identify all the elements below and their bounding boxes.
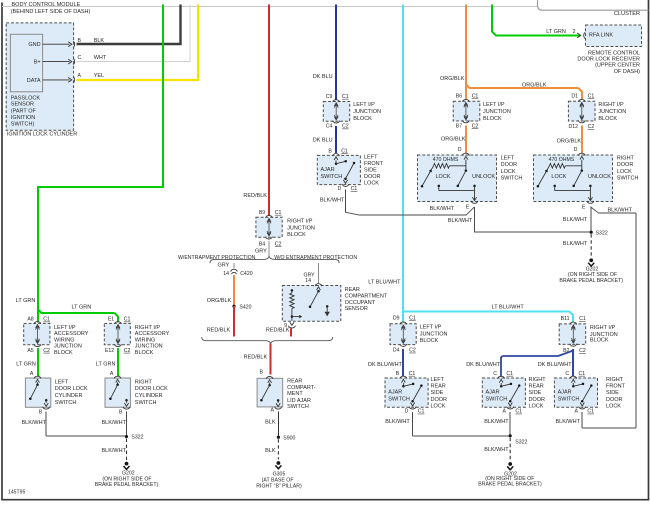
pin GND [28,42,69,48]
svg-text:OF DASH): OF DASH) [614,69,640,75]
svg-text:AJAR: AJAR [558,390,572,396]
svg-text:BLK/WHT: BLK/WHT [556,419,581,425]
svg-text:SWITCH: SWITCH [558,396,580,402]
svg-text:DOOR LOCK: DOOR LOCK [55,386,88,392]
wire DK BLU between blocks [313,126,336,153]
svg-text:SIDE: SIDE [529,390,542,396]
svg-text:C2: C2 [409,348,416,354]
svg-text:LEFT I/P: LEFT I/P [483,102,505,108]
svg-text:C9: C9 [326,94,333,100]
wire ORG/BLK trunk [440,5,466,100]
svg-text:WIRING: WIRING [135,337,155,343]
wire ORG/BLK B7 to left lock label [441,137,466,143]
left rear side door lock ajar switch [385,371,447,415]
svg-text:BLK: BLK [265,420,276,426]
svg-text:E: E [582,204,586,210]
wire BLK/WHT left rear ajar D to S322 [385,412,509,436]
svg-text:DK BLU/WHT: DK BLU/WHT [466,362,501,368]
svg-text:LT GRN: LT GRN [546,29,566,35]
left door lock switch [418,126,523,211]
svg-text:SWITCH: SWITCH [388,396,410,402]
wire LT GRN to RFA LINK [492,5,580,36]
svg-text:BLOCK: BLOCK [287,232,306,238]
ignition lock cylinder box [6,23,73,130]
svg-text:RIGHT: RIGHT [529,377,547,383]
svg-text:BRAKE PEDAL BRACKET): BRAKE PEDAL BRACKET) [478,482,542,488]
RFA LINK label [589,32,613,38]
svg-text:BLOCK: BLOCK [483,116,502,122]
svg-text:145T95: 145T95 [8,490,25,496]
svg-text:REAR: REAR [345,287,360,293]
svg-text:RIGHT I/P: RIGHT I/P [598,102,624,108]
svg-text:RED/BLK: RED/BLK [207,327,231,333]
svg-text:B4: B4 [259,241,265,247]
wire GRY from B4 [255,241,269,257]
svg-text:JUNCTION: JUNCTION [483,109,511,115]
svg-text:E12: E12 [105,348,114,354]
svg-text:JUNCTION: JUNCTION [54,344,82,350]
svg-text:RIGHT I/P: RIGHT I/P [135,325,161,331]
svg-text:BRAKE PEDAL BRACKET): BRAKE PEDAL BRACKET) [559,278,623,284]
svg-text:BLK/WHT: BLK/WHT [22,420,47,426]
svg-text:C1: C1 [275,210,282,216]
svg-text:DOOR: DOOR [431,397,448,403]
svg-text:SWITCH: SWITCH [287,404,309,410]
svg-text:S322: S322 [596,230,608,236]
svg-text:C: C [565,371,569,377]
svg-text:RED/BLK: RED/BLK [266,327,290,333]
svg-text:D4: D4 [393,348,400,354]
svg-text:JUNCTION: JUNCTION [353,109,381,115]
wire LT BLU/WHT trunk [368,5,403,323]
passlock sensor box [10,34,42,92]
svg-text:C2: C2 [579,348,586,354]
svg-text:SWITCH: SWITCH [501,175,523,181]
wire ORG/BLK D12 to right lock label [557,138,582,144]
svg-text:LEFT I/P: LEFT I/P [353,102,375,108]
left front side door lock ajar switch [317,148,383,192]
wire BLK/WHT right front ajar A label [556,419,581,425]
svg-text:C2: C2 [472,123,479,129]
svg-text:C1: C1 [506,371,513,377]
svg-text:D: D [574,147,578,153]
svg-text:B+: B+ [34,60,41,66]
svg-text:LOCK: LOCK [501,169,516,175]
svg-text:C1: C1 [515,409,522,415]
right front side door lock ajar switch [554,371,625,415]
junction block C9/C1 left i/p [323,94,381,130]
svg-text:REAR: REAR [431,384,446,390]
svg-text:BLK/WHT: BLK/WHT [320,198,345,204]
svg-text:IGNITION LOCK CYLINDER: IGNITION LOCK CYLINDER [7,132,77,138]
wire YEL [77,5,199,81]
svg-text:C420: C420 [240,271,253,277]
svg-text:RIGHT: RIGHT [135,379,153,385]
wire LT GRN branch to E1 [38,305,118,323]
right rear side door lock ajar switch [482,371,546,415]
junction block A8 left i/p accessory [24,317,89,356]
svg-text:A5: A5 [27,348,33,354]
svg-text:LOCK: LOCK [529,403,544,409]
svg-text:BLK/WHT: BLK/WHT [608,207,633,213]
svg-text:SWITCH: SWITCH [617,175,639,181]
svg-text:DATA: DATA [27,78,41,84]
svg-text:A: A [30,371,34,377]
junction block D9 left i/p [390,316,448,354]
svg-text:E1: E1 [108,317,114,323]
cluster outline [538,0,649,17]
svg-text:AJAR: AJAR [388,390,402,396]
svg-text:DOOR: DOOR [529,397,546,403]
svg-text:BLK/WHT: BLK/WHT [385,419,410,425]
svg-text:RFA LINK: RFA LINK [589,32,613,38]
svg-text:B: B [119,409,123,415]
wire BLK/WHT S322 to G202 dashed right [484,438,510,461]
wire BLK/WHT left lock E diagonal [430,206,475,215]
svg-text:DK BLU: DK BLU [313,74,333,80]
svg-text:C1: C1 [579,371,586,377]
svg-text:RIGHT: RIGHT [606,377,624,383]
svg-text:C2: C2 [43,348,50,354]
svg-text:MENT: MENT [287,391,303,397]
wire RED/BLK sensor 9 to merge [266,327,291,336]
svg-text:LT GRN: LT GRN [96,362,116,368]
RFA LINK box [586,25,642,47]
svg-text:D: D [338,186,342,192]
svg-text:RED/BLK: RED/BLK [244,355,268,361]
wire BLK S900 to G305 dashed [265,439,278,459]
svg-text:FRONT: FRONT [364,161,384,167]
wire DK BLU/WHT B11 branch to right rear ajar [466,351,573,377]
svg-text:LEFT: LEFT [431,377,445,383]
svg-text:(AT BASE OF: (AT BASE OF [262,477,294,483]
svg-text:D: D [405,409,409,415]
svg-text:ACCESSORY: ACCESSORY [54,331,89,337]
svg-text:REMOTE CONTROL: REMOTE CONTROL [588,51,640,57]
junction block D1 right i/p [568,94,626,131]
splice S322 left [125,435,144,441]
svg-text:GRY: GRY [218,262,230,268]
svg-text:ORG/BLK: ORG/BLK [207,298,232,304]
svg-text:D: D [458,147,462,153]
svg-text:SWITCH: SWITCH [55,400,77,406]
svg-text:PASSLOCK: PASSLOCK [11,95,41,101]
svg-text:C2: C2 [275,241,282,247]
svg-text:UNLOCK: UNLOCK [472,174,495,180]
wire BLK/WHT left front ajar D to junction [320,190,467,216]
svg-text:14: 14 [223,271,229,277]
svg-text:LT GRN: LT GRN [16,362,36,368]
svg-text:A: A [575,409,579,415]
svg-text:BLK/WHT: BLK/WHT [102,420,127,426]
svg-text:C1: C1 [472,94,479,100]
svg-text:C1: C1 [587,409,594,415]
svg-text:BLOCK: BLOCK [420,338,439,344]
svg-text:B6: B6 [456,94,462,100]
svg-text:RIGHT “B” PILLAR): RIGHT “B” PILLAR) [256,484,302,490]
svg-text:ORG/BLK: ORG/BLK [441,137,466,143]
svg-text:S322: S322 [515,440,527,446]
svg-text:LOCK: LOCK [436,174,451,180]
svg-text:C2: C2 [588,124,595,130]
svg-text:RIGHT I/P: RIGHT I/P [287,219,313,225]
wire WHT [77,5,191,62]
body control module label [11,2,91,15]
wire DK BLU/WHT D9 to left rear ajar [368,349,403,377]
connector pin C [68,55,81,64]
ground G305 [256,461,302,490]
wire LT BLU/WHT branch to B11 [404,305,573,323]
svg-text:B: B [328,148,332,154]
svg-text:S900: S900 [283,435,295,441]
svg-text:C1: C1 [418,409,425,415]
svg-text:LOCK: LOCK [431,403,446,409]
svg-text:IGNITION: IGNITION [11,115,35,121]
svg-text:C: C [78,55,82,61]
svg-text:B: B [396,371,400,377]
svg-text:DOOR LOCK: DOOR LOCK [135,386,168,392]
svg-text:ORG/BLK: ORG/BLK [440,76,465,82]
right door lock switch [534,126,639,211]
svg-text:LT BLU/WHT: LT BLU/WHT [368,279,401,285]
svg-text:LT BLU/WHT: LT BLU/WHT [492,305,525,311]
svg-text:DK BLU: DK BLU [313,138,333,144]
junction block B9 right i/p [256,210,315,247]
svg-text:C1: C1 [579,316,586,322]
wire GRY w/o entrapment branch [304,263,319,284]
svg-text:CLUSTER: CLUSTER [614,11,640,17]
svg-text:A8: A8 [27,317,33,323]
svg-text:AJAR: AJAR [321,167,335,173]
svg-text:LOCK: LOCK [551,174,566,180]
pin DATA [27,78,70,84]
lid ajar switch label [287,379,316,411]
wire BLK/WHT right lock E down [563,207,591,231]
svg-text:SENSOR: SENSOR [345,306,368,312]
svg-text:UNLOCK: UNLOCK [588,174,611,180]
svg-text:RED/BLK: RED/BLK [243,193,267,199]
svg-text:BLK/WHT: BLK/WHT [102,448,127,454]
svg-text:BLK/WHT: BLK/WHT [448,218,473,224]
left door lock cylinder switch [25,376,88,415]
svg-text:C2: C2 [124,348,131,354]
svg-text:C: C [493,371,497,377]
junction block E1 right i/p accessory [104,317,169,356]
wire BLK/WHT right lock E diagonal to right rail [582,207,636,428]
svg-text:JUNCTION: JUNCTION [420,332,448,338]
svg-text:GND: GND [28,42,40,48]
junction block B11 right i/p [559,316,618,354]
ground G202 upper right [559,258,623,284]
occupant sensor label [345,287,388,312]
svg-text:S420: S420 [239,304,251,310]
diagram id 145T95 [8,490,25,496]
svg-text:SENSOR: SENSOR [11,102,34,108]
lid ajar switch internals [260,377,281,414]
svg-text:BLK/WHT: BLK/WHT [430,206,455,212]
rear compartment lid ajar switch box [257,378,283,407]
wire BLK/WHT left cylinder B to S322 [22,412,126,436]
ground G202 left [95,462,159,489]
svg-text:LEFT I/P: LEFT I/P [420,325,442,331]
svg-text:LID AJAR: LID AJAR [287,398,311,404]
merge brace [202,337,333,343]
wire RED/BLK merged to lid ajar switch [244,344,271,376]
svg-text:DK BLU/WHT: DK BLU/WHT [368,362,403,368]
svg-text:S322: S322 [131,435,143,441]
svg-text:C1: C1 [341,148,348,154]
svg-text:LT GRN: LT GRN [16,298,36,304]
svg-text:BLOCK: BLOCK [353,116,372,122]
svg-text:B7: B7 [456,123,462,129]
svg-text:BLOCK: BLOCK [54,350,73,356]
wire GRY entrapment branch [218,262,235,268]
connector C420 [223,269,252,277]
wire LT GRN trunk [16,5,163,323]
svg-text:DOOR LOCK RECEIVER: DOOR LOCK RECEIVER [577,57,640,63]
svg-text:LEFT: LEFT [364,155,378,161]
svg-text:DOOR: DOOR [501,162,518,168]
svg-text:BLOCK: BLOCK [135,350,154,356]
svg-text:LOCK: LOCK [364,181,379,187]
svg-text:C1: C1 [409,371,416,377]
svg-text:SIDE: SIDE [606,390,619,396]
svg-text:RIGHT: RIGHT [617,156,635,162]
svg-text:JUNCTION: JUNCTION [135,344,163,350]
svg-text:BLK/WHT: BLK/WHT [563,217,588,223]
svg-text:REAR: REAR [529,384,544,390]
svg-text:BLK/WHT: BLK/WHT [484,447,509,453]
wire BLK/WHT right cylinder B to S322 [102,412,127,436]
svg-text:ORG/BLK: ORG/BLK [557,138,582,144]
svg-text:LEFT: LEFT [501,156,515,162]
wire DK BLU/WHT B11 to right front ajar [538,349,573,377]
svg-text:DOOR: DOOR [606,397,623,403]
pin B+ [34,60,70,66]
svg-text:AJAR: AJAR [486,390,500,396]
svg-text:BLK: BLK [265,448,276,454]
svg-text:ORG/BLK: ORG/BLK [522,82,547,88]
svg-text:B: B [260,369,264,375]
wire BLK/WHT right rear ajar A to S322 [484,412,510,434]
wire BLK/WHT S322 to G202 dashed left [102,439,127,460]
svg-text:LEFT I/P: LEFT I/P [54,325,76,331]
ground G202 right [478,462,542,488]
passlock sensor label [11,95,41,127]
svg-text:BRAKE PEDAL BRACKET): BRAKE PEDAL BRACKET) [95,482,159,488]
svg-text:LOCK: LOCK [606,403,621,409]
svg-text:DOOR: DOOR [617,162,634,168]
svg-text:BLOCK: BLOCK [598,116,617,122]
svg-text:(BEHIND LEFT SIDE OF DASH): (BEHIND LEFT SIDE OF DASH) [11,9,91,15]
rear compartment occupant sensor box [282,286,341,322]
svg-text:GRY: GRY [255,248,267,254]
splice S322 right [509,434,528,445]
svg-text:B11: B11 [561,316,570,322]
wire BLK lid ajar to S900 [265,411,278,435]
svg-text:CYLINDER: CYLINDER [55,393,83,399]
wire ORG/BLK branch to D1 [466,82,582,99]
entrapment option brace [178,255,357,263]
svg-text:BODY CONTROL MODULE: BODY CONTROL MODULE [12,2,81,8]
wire BLK [77,5,181,45]
remote control door lock receiver label [577,51,640,75]
wire BLK/WHT left E down to S322 rail [448,207,590,232]
svg-text:C1: C1 [351,186,358,192]
svg-text:LEFT: LEFT [55,379,69,385]
svg-text:DK BLU/WHT: DK BLU/WHT [538,362,573,368]
right door lock cylinder switch [105,376,168,415]
svg-text:A: A [503,409,507,415]
connector pin A [68,73,81,83]
wire RED/BLK S420 to merge [207,306,234,336]
svg-text:C1: C1 [409,316,416,322]
svg-text:D1: D1 [571,94,578,100]
svg-text:FRONT: FRONT [606,384,626,390]
svg-text:YEL: YEL [94,73,104,79]
svg-text:E: E [466,204,470,210]
svg-text:C1: C1 [43,317,50,323]
svg-text:BLOCK: BLOCK [590,338,609,344]
svg-text:DOOR: DOOR [364,174,381,180]
occupant sensor pin 14 cap [315,284,322,290]
svg-text:BLK/WHT: BLK/WHT [563,241,588,247]
svg-text:B9: B9 [259,210,265,216]
svg-text:SWITCH: SWITCH [321,174,343,180]
wire LT GRN E1 to right cylinder switch [96,348,118,377]
svg-text:SIDE: SIDE [431,390,444,396]
svg-text:ACCESSORY: ACCESSORY [135,331,170,337]
svg-text:CYLINDER: CYLINDER [135,393,163,399]
junction block B6 left i/p [453,94,511,130]
svg-text:SWITCH): SWITCH) [11,122,35,128]
svg-text:LT GRN: LT GRN [72,305,92,311]
wire RED/BLK trunk [243,5,269,216]
svg-text:SIDE: SIDE [364,168,377,174]
svg-text:COMPART-: COMPART- [287,385,316,391]
svg-text:C1: C1 [588,94,595,100]
svg-text:JUNCTION: JUNCTION [598,109,626,115]
svg-text:D12: D12 [568,124,578,130]
wire BLK/WHT S322 to G202 dashed [563,234,591,257]
svg-text:B: B [39,409,43,415]
svg-text:WHT: WHT [94,55,107,61]
wire ORG/BLK C420 to S420 [207,275,234,305]
svg-text:LOCK: LOCK [617,169,632,175]
svg-text:W/ENTRAPMENT PROTECTION: W/ENTRAPMENT PROTECTION [178,255,256,261]
svg-text:REAR: REAR [287,379,302,385]
RFA LINK connector pin 2 [573,29,585,39]
svg-text:JUNCTION: JUNCTION [287,225,315,231]
svg-text:RIGHT I/P: RIGHT I/P [590,325,616,331]
occupant sensor internals [290,289,330,321]
svg-text:A: A [271,408,275,414]
svg-text:C1: C1 [342,94,349,100]
svg-text:C4: C4 [326,124,333,130]
ignition lock cylinder label [7,132,77,138]
svg-text:COMPARTMENT: COMPARTMENT [345,293,388,299]
svg-text:SWITCH: SWITCH [135,400,157,406]
splice S322 upper [590,230,608,236]
svg-text:2: 2 [573,29,576,35]
svg-text:C2: C2 [342,124,349,130]
wire DK BLU trunk [313,5,336,100]
splice S900 [277,435,296,441]
svg-text:SWITCH: SWITCH [486,396,508,402]
svg-text:14: 14 [305,278,311,284]
splice S420 [232,304,251,310]
svg-text:C1: C1 [124,317,131,323]
